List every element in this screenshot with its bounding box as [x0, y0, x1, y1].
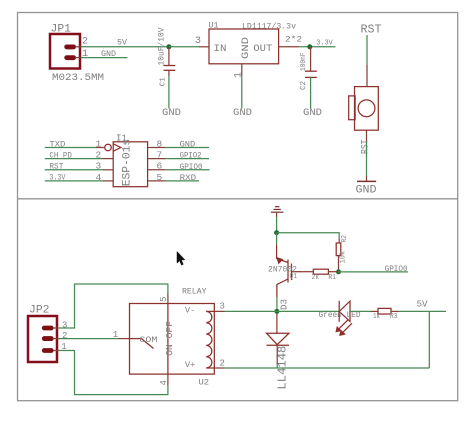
I1 pin 1 stub	[96, 147, 105, 149]
relay pin 5 stub	[167, 294, 169, 304]
svg-text:10uF/10V: 10uF/10V	[158, 27, 167, 65]
svg-text:2*2: 2*2	[285, 35, 302, 45]
svg-text:ESP-01s: ESP-01s	[122, 139, 134, 187]
svg-text:GND: GND	[162, 108, 181, 119]
wire GPIO0 net bottom	[339, 271, 408, 273]
svg-text:V-: V-	[185, 307, 196, 316]
junction on 3.3V net above C2	[307, 44, 312, 49]
svg-text:2: 2	[62, 331, 67, 341]
svg-text:LD1117/3.3v: LD1117/3.3v	[242, 23, 296, 32]
svg-text:RXD: RXD	[180, 174, 197, 183]
I1 pin 5 stub	[148, 180, 166, 182]
svg-text:GPIO0: GPIO0	[180, 163, 203, 172]
wire R3 to 5V	[391, 310, 446, 312]
svg-text:R1: R1	[328, 274, 336, 282]
R1 pins	[303, 271, 339, 273]
svg-text:OUT: OUT	[253, 43, 272, 55]
resistor R2 body	[336, 243, 341, 256]
connector JP1	[50, 34, 81, 69]
svg-text:JP1: JP1	[51, 24, 72, 36]
svg-text:5: 5	[159, 297, 169, 302]
relay U2 pin 3 stub	[214, 310, 224, 312]
svg-text:GND: GND	[356, 184, 377, 196]
wire C1 bottom to GND	[168, 70, 170, 108]
U1 pin 1 stub (GND)	[241, 64, 243, 77]
svg-text:7: 7	[157, 150, 163, 161]
svg-text:2: 2	[82, 36, 88, 47]
junction on V- rail	[274, 309, 279, 314]
svg-text:3: 3	[220, 302, 225, 312]
svg-text:U2: U2	[199, 378, 210, 388]
svg-text:V+: V+	[185, 361, 196, 370]
svg-text:1: 1	[96, 138, 102, 149]
svg-text:GND: GND	[303, 108, 322, 119]
svg-text:Q1: Q1	[290, 273, 298, 281]
svg-text:2: 2	[96, 150, 102, 161]
svg-text:Green LED: Green LED	[319, 311, 361, 320]
relay COM pin 1 stub	[119, 338, 130, 340]
I1 pin 7 stub	[148, 158, 166, 160]
resistor R1 body	[313, 269, 328, 274]
wire V- rail to LED	[225, 310, 340, 312]
svg-text:1k: 1k	[373, 313, 380, 321]
U1 pin 3 stub	[199, 46, 209, 48]
I1 pin 2 stub	[103, 158, 114, 160]
pushbutton S1 body	[349, 87, 379, 131]
diode D3 top pin	[276, 314, 278, 334]
wire GPIO2 net	[166, 158, 209, 160]
svg-text:CH_PD: CH_PD	[49, 151, 72, 160]
svg-text:R3: R3	[390, 313, 398, 321]
relay U2 box	[130, 304, 215, 375]
R2 top pin stub	[338, 239, 340, 244]
svg-text:GND: GND	[240, 37, 252, 59]
svg-text:COM: COM	[139, 335, 157, 345]
junction on 5V net above C1	[166, 44, 171, 49]
svg-text:IN: IN	[214, 43, 227, 55]
svg-text:1: 1	[233, 72, 244, 78]
pushbutton bottom pin	[366, 130, 368, 141]
svg-text:TXD: TXD	[49, 140, 65, 149]
wire C2 bottom to GND	[310, 77, 312, 108]
wire RST net to I1	[45, 169, 103, 171]
capacitor C1 top pin	[168, 47, 170, 65]
capacitor C2 plates	[305, 71, 317, 77]
svg-text:C2: C2	[300, 81, 308, 90]
svg-text:3: 3	[62, 320, 67, 330]
wire V+ rail	[225, 367, 430, 369]
svg-text:GND: GND	[233, 108, 252, 119]
wire LED to R3	[350, 310, 378, 312]
wire RXD net	[166, 180, 199, 182]
U1 pin 2 stub (OUT)	[279, 46, 300, 48]
wire 3.3V net	[299, 46, 335, 48]
wire ground to junction	[276, 213, 278, 233]
svg-text:M023.5MM: M023.5MM	[52, 72, 104, 84]
diode D3 symbol	[267, 333, 290, 345]
svg-text:RST: RST	[361, 24, 382, 37]
svg-text:2k: 2k	[312, 274, 320, 282]
svg-text:3.3V: 3.3V	[49, 174, 65, 183]
svg-text:GPIO2: GPIO2	[180, 152, 202, 161]
svg-text:RELAY: RELAY	[182, 287, 207, 296]
I1 pin 6 stub	[148, 169, 166, 171]
svg-text:10k: 10k	[339, 251, 347, 264]
wire drain node down to Q1	[276, 233, 278, 245]
ground symbol below button	[357, 180, 376, 182]
svg-text:RST: RST	[49, 163, 63, 172]
wire Q1 source to V- rail	[276, 297, 278, 311]
resistor R3 body	[378, 308, 391, 314]
svg-text:JP2: JP2	[29, 305, 50, 317]
diode D3 bottom pin	[276, 345, 278, 368]
wire 5V net from junction to U1 pin 3	[169, 46, 199, 48]
svg-text:2: 2	[220, 359, 225, 369]
capacitor C1 plates	[164, 66, 176, 71]
svg-text:3.3V: 3.3V	[316, 40, 333, 48]
svg-text:3: 3	[195, 36, 201, 47]
svg-text:D3: D3	[279, 299, 289, 310]
I1 pin 4 stub	[103, 180, 114, 182]
wire 3.3V net to I1	[45, 180, 103, 182]
svg-text:4: 4	[159, 380, 169, 385]
relay U2 pin 2 stub	[214, 367, 224, 369]
wire JP2 pin 1 to relay pin 4	[59, 351, 168, 395]
relay pin 4 stub	[167, 374, 169, 385]
connector JP2	[28, 316, 59, 362]
relay coil	[206, 311, 214, 368]
wire 5V net from JP1 pin 2 to junction	[81, 46, 169, 48]
wire TXD net	[45, 147, 96, 149]
mouse cursor	[177, 252, 185, 266]
I1 pin 8 stub	[148, 147, 166, 149]
svg-text:U1: U1	[209, 22, 219, 31]
wire JP2 pin 3 to relay pin 5	[59, 284, 168, 328]
svg-text:R2: R2	[341, 235, 349, 242]
svg-text:5V: 5V	[117, 39, 127, 48]
svg-text:ON OFF: ON OFF	[165, 321, 175, 356]
svg-text:6: 6	[157, 161, 163, 172]
ESP-01 connector I1 box	[113, 142, 147, 187]
wire 5V vertical drop	[428, 311, 430, 368]
wire GPIO0 net	[166, 169, 210, 171]
svg-text:C1: C1	[159, 77, 167, 86]
svg-text:5: 5	[157, 172, 163, 183]
wire GND stub from JP1 pin 1	[81, 57, 128, 59]
svg-text:100nF: 100nF	[300, 53, 308, 72]
I1 pin 1 inversion bubble and clock mark	[105, 144, 121, 151]
svg-text:GND: GND	[180, 140, 196, 149]
junction at gate node	[336, 269, 341, 274]
svg-text:GPIO0: GPIO0	[385, 265, 408, 274]
svg-text:5V: 5V	[417, 299, 429, 309]
svg-text:4: 4	[96, 172, 102, 183]
wire U1 GND pin down	[241, 76, 243, 108]
voltage regulator U1 LD1117	[209, 29, 279, 64]
wire CH_PD net	[45, 158, 103, 160]
LED D2 symbol	[336, 301, 352, 335]
wire JP2 pin 2 to relay COM	[59, 338, 119, 340]
capacitor C2 top pin	[310, 47, 312, 71]
junction at Q1 drain node	[274, 230, 279, 235]
R2 bottom pin stub	[338, 256, 340, 272]
transistor Q1 2N7002	[277, 245, 303, 297]
svg-text:GND: GND	[101, 50, 116, 59]
svg-text:3: 3	[96, 161, 102, 172]
wire drain node to R2 top	[277, 233, 340, 239]
wire button to GND symbol	[366, 141, 368, 181]
flipped ground symbol above Q1	[271, 207, 284, 213]
wire RST net to button	[366, 35, 368, 87]
I1 pin 3 stub	[103, 169, 114, 171]
svg-text:8: 8	[157, 138, 163, 149]
wire GND net right	[166, 147, 209, 149]
